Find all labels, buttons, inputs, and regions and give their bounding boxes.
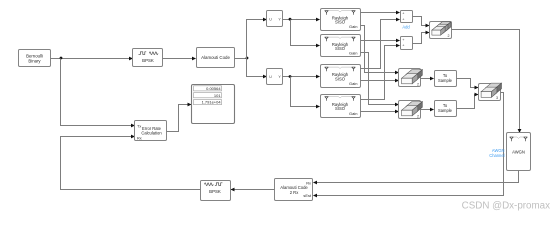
wire split down to Selector2 <box>247 59 268 79</box>
svg-text:Sample: Sample <box>438 78 453 83</box>
wire Rayleigh3 Gain to ConcatA in2 <box>361 79 400 83</box>
block Matrix Concatenate 1 <box>430 22 452 39</box>
svg-text:Sample: Sample <box>438 108 453 113</box>
svg-text:2: 2 <box>448 34 450 38</box>
wire Rayleigh3 out up to Add1 in2 <box>361 18 401 69</box>
svg-text:Rx: Rx <box>137 136 142 140</box>
block BPSK Demodulator <box>201 181 231 201</box>
wire Rayleigh4 out up to Add2 in2 <box>361 44 401 100</box>
svg-text:SISO: SISO <box>335 46 346 51</box>
wire Add1 out to Concat1 in1 <box>413 17 430 28</box>
wire BPSK demod out to Error Rate Rx <box>61 135 201 190</box>
wire Alamouti2Rx out to BPSK demod <box>231 188 275 192</box>
wire Rayleigh1 out to Add1 in1 <box>361 11 401 15</box>
svg-text:U: U <box>269 18 272 22</box>
svg-text:Gain: Gain <box>349 81 357 86</box>
svg-text:Binary: Binary <box>28 59 41 64</box>
label AWGN Channel (blue) <box>489 148 504 158</box>
svg-text:Gain: Gain <box>349 111 357 116</box>
junction node on Bernoulli wire <box>60 57 63 60</box>
svg-text:0.00564: 0.00564 <box>206 86 221 91</box>
svg-text:Alamouti Code: Alamouti Code <box>201 55 230 60</box>
wire Concat1 out to AWGN top <box>452 30 522 134</box>
wire ConcatC out to sEst <box>313 93 504 198</box>
svg-text:CSDN @Dx-promax: CSDN @Dx-promax <box>462 201 550 212</box>
block Rayleigh SISO 3 <box>321 65 361 88</box>
wire Rayleigh2 Gain down to ConcatB in1 <box>361 53 400 107</box>
wire ConcatB out to ToSample2 <box>421 108 435 112</box>
block Rayleigh SISO 1 <box>321 9 361 31</box>
wire ConcatA out to ToSample1 <box>421 77 435 81</box>
label Add (blue) <box>402 24 410 29</box>
wire Add2 out to Concat1 in2 <box>413 31 430 44</box>
svg-text:3: 3 <box>496 96 498 100</box>
block Add1 sum <box>401 11 413 23</box>
block ConcatA gains <box>399 69 423 87</box>
svg-text:sEst: sEst <box>303 193 311 198</box>
svg-text:Gain: Gain <box>349 24 357 29</box>
block Selector2 (U Y) <box>267 69 283 85</box>
block Alamouti Code 2 Rx <box>275 179 313 201</box>
block ConcatB gains <box>399 101 423 119</box>
svg-text:2: 2 <box>417 114 419 118</box>
block To Sample 1 <box>435 71 457 87</box>
wire Bernoulli out to BPSK mod <box>51 57 134 61</box>
wire BPSK mod to Alamouti Code <box>163 57 197 61</box>
block Display (BER values) <box>192 85 235 124</box>
svg-text:Add: Add <box>402 24 410 29</box>
block To Sample 2 <box>435 101 457 117</box>
wire Selector2 to Rayleigh3 <box>283 75 321 79</box>
block Rayleigh SISO 2 <box>321 35 361 57</box>
junction node after Selector2 <box>289 75 292 78</box>
svg-text:Channel: Channel <box>489 153 504 158</box>
svg-text:Gain: Gain <box>349 50 357 55</box>
svg-text:AWGN: AWGN <box>512 150 525 155</box>
wire junction down to Error Rate Tx input <box>61 59 136 128</box>
block Add2 sum <box>401 37 413 50</box>
block Error Rate Calculation <box>135 121 167 141</box>
wire Rayleigh1 Gain down to ConcatA in1 <box>361 26 400 75</box>
wire Error Rate out to Display <box>167 103 192 132</box>
junction node after Selector1 <box>289 18 292 21</box>
block ConcatC channel estimates <box>479 83 502 100</box>
wire Rayleigh2 out to Add2 in1 <box>361 39 401 43</box>
svg-text:SISO: SISO <box>335 106 346 111</box>
wire split up to Selector1 <box>247 18 268 59</box>
wire AWGN out to Rx <box>313 171 519 185</box>
block Selector1 (U Y) <box>267 11 283 27</box>
svg-text:101: 101 <box>214 93 221 98</box>
wire branch down to Rayleigh2 <box>291 20 321 48</box>
block AWGN Channel <box>507 133 531 171</box>
wire Selector1 to Rayleigh1 <box>283 18 321 22</box>
svg-text:2: 2 <box>417 82 419 86</box>
svg-text:Calculation: Calculation <box>141 131 162 136</box>
block Bernoulli Binary generator <box>19 50 51 67</box>
svg-text:SISO: SISO <box>335 76 346 81</box>
wire Alamouti out to split junction <box>235 58 247 60</box>
svg-text:Tx: Tx <box>137 124 141 128</box>
svg-text:BPSK: BPSK <box>209 189 221 194</box>
wire ToSample2 out to ConcatC in2 <box>457 93 479 109</box>
svg-text:U: U <box>269 75 272 79</box>
block Rayleigh SISO 4 <box>321 95 361 118</box>
wire ToSample1 out to ConcatC in1 <box>457 79 479 90</box>
svg-text:SISO: SISO <box>335 20 346 25</box>
block Alamouti Code encoder <box>197 48 235 68</box>
svg-text:BPSK: BPSK <box>142 58 154 63</box>
junction node Alamouti split <box>246 57 249 60</box>
svg-text:2 Rx: 2 Rx <box>290 190 300 195</box>
wire Rayleigh4 Gain to ConcatB in2 <box>361 110 400 114</box>
wire branch down to Rayleigh4 <box>291 77 321 109</box>
svg-text:1.791e+04: 1.791e+04 <box>202 100 222 105</box>
block BPSK Modulator <box>133 49 163 67</box>
watermark CSDN @Dx-promax <box>462 201 550 212</box>
